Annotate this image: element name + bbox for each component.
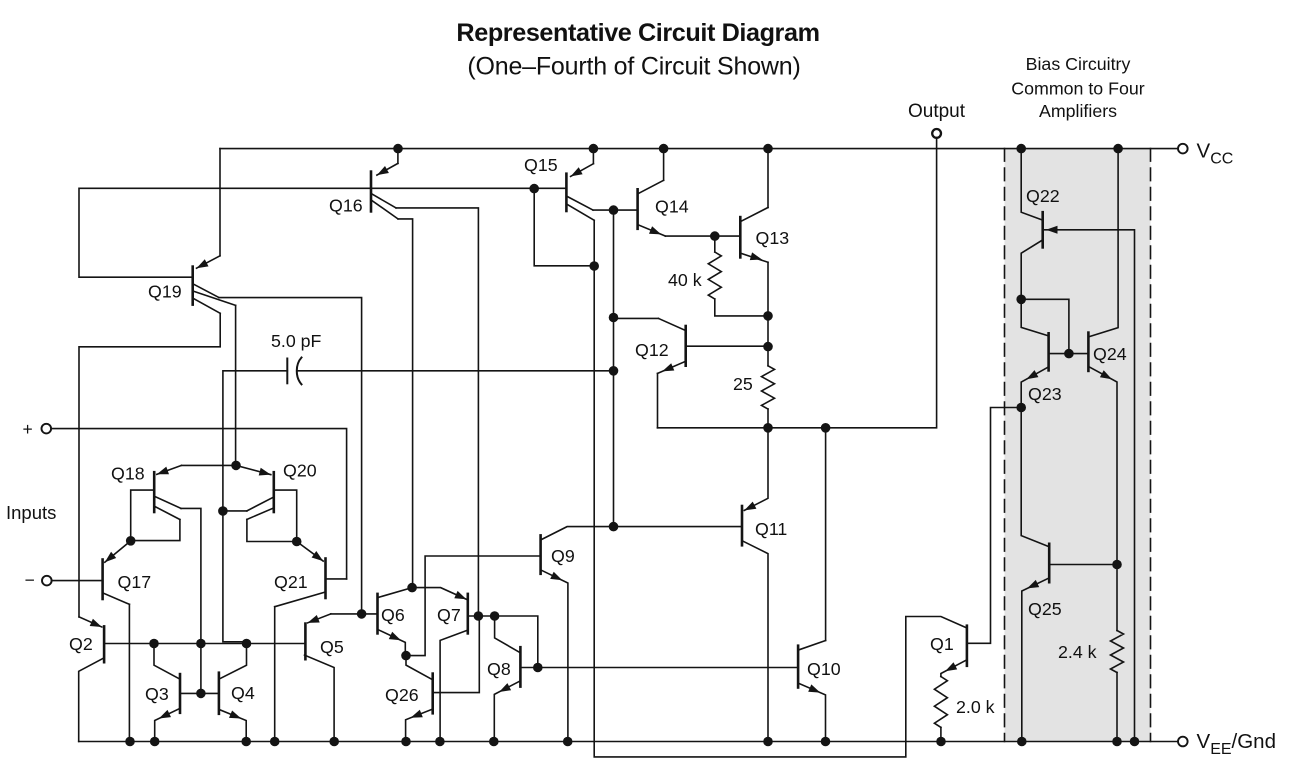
transistor Q14 <box>636 189 639 229</box>
wire: Q13 base <box>715 235 739 237</box>
VCC terminal <box>1178 144 1188 154</box>
node: Q3/Q4 common base <box>196 689 206 699</box>
transistor Q15 <box>565 174 568 211</box>
node: Q15 collector/base join <box>589 261 599 271</box>
wire: Q15 collector2 down to Q1 collector <box>594 220 966 757</box>
wire: Q15 emitter from VCC <box>592 149 594 164</box>
svg-text:Q25: Q25 <box>1028 599 1062 619</box>
transistor Q7 <box>466 594 469 634</box>
transistor Q22 <box>1041 212 1044 247</box>
svg-text:Q21: Q21 <box>274 572 308 592</box>
svg-text:Bias Circuitry: Bias Circuitry <box>1026 54 1131 74</box>
node: 40k bottom / Q13 emitter <box>763 311 773 321</box>
svg-text:Q19: Q19 <box>148 282 182 302</box>
node: Q13 base / 40k top <box>710 231 720 241</box>
svg-text:5.0 pF: 5.0 pF <box>271 331 322 351</box>
svg-text:VEE/Gnd: VEE/Gnd <box>1197 730 1276 758</box>
svg-text:Representative Circuit Diagram: Representative Circuit Diagram <box>456 19 819 47</box>
wire: Q23 top <box>1021 299 1048 335</box>
wire: Q18 collector2 loop to base <box>131 520 180 541</box>
dashed boundary left <box>1004 149 1006 742</box>
node: Q22 collector / Q23 emitter-feed <box>1016 295 1026 305</box>
node: Q18 collector tap <box>196 639 206 649</box>
wire: Q18 collector1 to Q3/Q4 bases <box>181 508 201 693</box>
node: Q3 collector tap <box>149 639 159 649</box>
wire: Q12 emitter to output node <box>657 373 659 427</box>
transistor Q4 <box>218 673 221 714</box>
wire: Q14 collector to VCC <box>663 149 665 181</box>
transistor Q26 <box>431 674 434 714</box>
svg-text:VCC: VCC <box>1197 140 1234 168</box>
node: Q18 base/collector tie <box>126 536 136 546</box>
wire: mirror sense line down <box>613 210 615 526</box>
transistor Q21 <box>324 559 327 599</box>
transistor Q10 <box>797 646 800 688</box>
transistor Q25 <box>1048 544 1051 582</box>
node: Q23 emitter / wire to Q1 base <box>1016 403 1026 413</box>
resistor 2.4k <box>1116 565 1118 631</box>
node: Q25 base / 2.4k top <box>1112 560 1122 570</box>
node: Q16 collector1 / Q26 base tap <box>474 611 484 621</box>
node: Q12 base on 25 ohm chain <box>763 342 773 352</box>
bias circuitry shaded region <box>1005 149 1151 742</box>
node: Q6 emitter / Q26 collector / Q9 base <box>401 651 411 661</box>
svg-text:2.4 k: 2.4 k <box>1058 642 1097 662</box>
svg-text:25: 25 <box>733 374 753 394</box>
transistor Q8 <box>519 647 522 686</box>
node: cap to mirror line <box>609 366 619 376</box>
svg-text:Q22: Q22 <box>1026 186 1060 206</box>
svg-text:Q15: Q15 <box>524 155 558 175</box>
node: Q15 base tap <box>529 184 539 194</box>
output terminal <box>932 129 941 138</box>
node: Q8 collector tap <box>490 611 500 621</box>
resistor 40k <box>714 236 716 252</box>
transistor Q2 <box>103 626 106 662</box>
wire: Q19 collector1 to Q5/Q6 <box>219 298 362 614</box>
svg-text:Q9: Q9 <box>551 546 575 566</box>
transistor Q19 <box>191 267 194 305</box>
node: Q11 base junction <box>609 522 619 532</box>
node: Q6/Q7 emitter node <box>407 583 417 593</box>
svg-text:Inputs: Inputs <box>6 502 56 523</box>
transistor Q18 <box>153 472 156 512</box>
svg-text:−: − <box>25 570 35 590</box>
wire: Q15 base to collector loop <box>534 189 594 266</box>
transistor Q6 <box>376 594 379 634</box>
svg-text:+: + <box>23 419 33 439</box>
svg-text:Q26: Q26 <box>385 685 419 705</box>
svg-text:Q3: Q3 <box>145 684 169 704</box>
capacitor C1 5.0pF <box>286 359 288 384</box>
transistor Q11 <box>741 506 744 545</box>
transistor Q20 <box>272 472 275 512</box>
transistor Q5 <box>304 624 307 660</box>
svg-text:Q20: Q20 <box>283 461 317 481</box>
wire: Q15 collector1 to Q14 base <box>593 209 637 211</box>
node: tail current / Q18 Q20 emitter node <box>231 461 241 471</box>
resistor 2.0k <box>934 677 947 728</box>
resistor 25 <box>762 366 775 409</box>
node: Q10 collector tap on output line <box>821 423 831 433</box>
node: Q8 base/collector tie to Q10 <box>533 663 543 673</box>
wire: Q16 collector1 to Q7 base <box>396 208 478 616</box>
wire: Q13 collector to VCC <box>767 149 769 208</box>
wire: Q16 emitter from VCC <box>397 149 399 164</box>
transistor Q16 <box>370 172 373 212</box>
svg-text:Q14: Q14 <box>655 197 689 217</box>
wire: Q19 collector2 to input pair emitters <box>235 305 237 465</box>
svg-text:Q11: Q11 <box>755 519 787 539</box>
node: Q19 collector1 tap <box>357 609 367 619</box>
node: Q23/Q24 common base <box>1064 349 1074 359</box>
wire: Q17 collector to VEE <box>128 604 130 741</box>
wire: Q12 collector to mirror line <box>614 317 659 319</box>
svg-text:Q2: Q2 <box>69 634 93 654</box>
wire: emitter node horizontal <box>182 464 237 466</box>
svg-text:Q1: Q1 <box>930 634 954 654</box>
wire: Q13 emitter down <box>767 262 769 316</box>
minus input wire <box>52 580 102 582</box>
svg-text:Q23: Q23 <box>1028 384 1062 404</box>
transistor Q3 <box>179 674 182 713</box>
svg-text:Q12: Q12 <box>635 340 669 360</box>
svg-text:Q18: Q18 <box>111 464 145 484</box>
wire: Q20 collector2 loop to base <box>247 519 297 541</box>
output wire <box>658 138 937 428</box>
transistor Q1 <box>966 626 969 666</box>
node: Q15 emitter on VCC <box>589 144 599 154</box>
svg-text:Q16: Q16 <box>329 196 363 216</box>
wire: Q23 emitter to Q25 collector <box>1021 408 1048 547</box>
transistor Q23 <box>1047 333 1050 370</box>
wire: Q14 emitter to 40k <box>665 235 714 237</box>
wire: Q20 collector1 to cap net <box>223 510 247 512</box>
svg-text:2.0 k: 2.0 k <box>956 697 995 717</box>
node: Q14 base junction <box>609 205 619 215</box>
wire: Q23/Q24 base feed <box>1021 299 1069 353</box>
VCC rail <box>220 148 1179 150</box>
VEE rail <box>79 741 1179 743</box>
svg-text:Q24: Q24 <box>1093 344 1127 364</box>
wire: 25 ohm top <box>767 316 769 366</box>
transistor Q9 <box>539 535 542 573</box>
node: Q20 collector on cap net <box>218 506 228 516</box>
svg-text:Q8: Q8 <box>487 659 511 679</box>
svg-text:Amplifiers: Amplifiers <box>1039 101 1117 121</box>
node: Q16 emitter on VCC <box>393 144 403 154</box>
svg-text:Q17: Q17 <box>118 572 152 592</box>
svg-text:Q6: Q6 <box>381 605 405 625</box>
svg-text:Output: Output <box>908 101 966 122</box>
svg-text:Q5: Q5 <box>320 637 344 657</box>
wire: Q5 collector / Q6 base <box>331 613 377 615</box>
wire: cap left <box>223 371 287 644</box>
transistor Q24 <box>1087 333 1090 371</box>
wire: Q16 collector2 to Q6/Q7 emitters <box>398 219 413 588</box>
wire: cap right <box>298 370 614 372</box>
wire: Q19 emitter from VCC <box>219 149 221 256</box>
node: Q20 base/collector tie <box>292 537 302 547</box>
wire: Q21 collector to VEE <box>274 607 276 742</box>
VEE terminal <box>1178 737 1188 747</box>
wire: Q22 emitter from VCC <box>1021 149 1042 220</box>
svg-text:Q13: Q13 <box>756 228 790 248</box>
node: 25 ohm bottom on output line <box>763 423 773 433</box>
transistor Q12 <box>684 326 687 366</box>
svg-text:Q7: Q7 <box>437 605 461 625</box>
svg-text:40 k: 40 k <box>668 270 702 290</box>
svg-text:(One–Fourth of Circuit Shown): (One–Fourth of Circuit Shown) <box>467 53 800 81</box>
wire: Q10 collector riser <box>825 428 827 641</box>
svg-text:Common to Four: Common to Four <box>1011 79 1144 99</box>
plus input wire <box>51 429 347 579</box>
dashed boundary right <box>1150 149 1152 742</box>
svg-text:Q4: Q4 <box>231 683 255 703</box>
transistor Q17 <box>101 560 104 600</box>
svg-text:Q10: Q10 <box>807 659 841 679</box>
node: Q4 collector tap <box>242 639 252 649</box>
wire: PNP base bias line <box>79 188 566 277</box>
transistor Q13 <box>739 217 742 257</box>
wire: Q19 collector3 to Q2 emitter <box>79 313 220 617</box>
